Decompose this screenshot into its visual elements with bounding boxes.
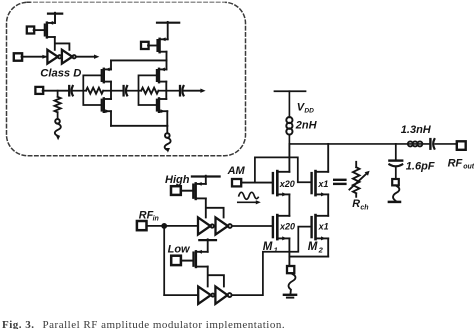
transistor P5 (High header PMOS): [192, 185, 194, 198]
transistor N1 (stage1 NMOS): [101, 100, 103, 111]
svg-text:M: M: [308, 241, 318, 253]
wire stage1 output: [111, 90, 124, 92]
svg-text:Fig. 3.Parallel RF amplitude m: Fig. 3.Parallel RF amplitude modulator i…: [2, 319, 285, 329]
svg-text:1: 1: [274, 245, 278, 254]
terminal circle (stage source): [165, 133, 170, 138]
wire AM to x20 gate: [241, 182, 273, 184]
inverter B3: [198, 287, 211, 304]
svg-text:in: in: [153, 216, 159, 223]
wire AM to x1 gate: [255, 157, 312, 182]
svg-text:RF: RF: [139, 209, 154, 221]
port square (RF input of inset): [35, 87, 43, 94]
svg-text:1.6pF: 1.6pF: [406, 160, 435, 172]
transistor M1 x20 (bottom left): [272, 217, 274, 237]
inductor L2 1.3nH (series): [408, 141, 413, 146]
capacitor C5 (output series): [429, 139, 431, 149]
resistor R1 (stage1 feedback): [86, 88, 103, 94]
svg-text:1.3nH: 1.3nH: [401, 124, 432, 136]
wire x1 drain up: [327, 144, 329, 172]
transistor P1 (PMOS header, Class D driver): [44, 25, 46, 36]
wire amp supply rail: [111, 59, 167, 61]
port square (P4 gate input): [141, 42, 149, 49]
resistor R2 (stage2 feedback): [141, 88, 158, 94]
wire M2 source down: [327, 238, 329, 256]
transistor P4 (PMOS header, amp supply): [156, 40, 158, 51]
pad square (shunt ground): [392, 179, 399, 185]
bond-wire squiggle arrow (bias): [55, 124, 61, 136]
pad square (source ground): [287, 266, 294, 273]
wire amp source rail: [111, 125, 167, 127]
power rail T-bar (Low): [199, 239, 216, 241]
transistor M1a x20 cascode (top left): [272, 173, 274, 193]
wire Low gate: [181, 260, 194, 262]
bond-wire squiggle arrow (stage source): [165, 138, 171, 150]
capacitor C3 (output): [179, 86, 181, 95]
svg-text:AM: AM: [227, 165, 246, 177]
port square (P1 gate input): [27, 27, 34, 34]
svg-text:ch: ch: [360, 204, 368, 211]
wire cascode mid left: [288, 194, 290, 215]
inductor L1 2nH (choke): [286, 117, 292, 123]
wire C1 to stage1 gate: [72, 90, 83, 92]
wire stage1 supply: [110, 60, 112, 69]
wire Class D output arrow: [76, 56, 95, 58]
wire drain rail: [289, 143, 430, 145]
svg-text:out: out: [463, 164, 474, 171]
svg-text:DD: DD: [304, 108, 314, 115]
equals sign: [334, 179, 345, 181]
port square (Class D input): [14, 53, 22, 60]
port square (RF output): [457, 141, 466, 150]
svg-text:2: 2: [318, 245, 324, 254]
wire cascode mid right: [327, 194, 329, 215]
wire inset output arrow: [183, 90, 201, 92]
svg-text:2nH: 2nH: [295, 120, 318, 132]
port square (Low input): [171, 256, 181, 265]
power rail T-bar (High): [192, 175, 220, 177]
svg-text:x20: x20: [279, 179, 295, 189]
wire B2 output to M1 gate: [232, 225, 273, 227]
svg-text:x20: x20: [279, 222, 295, 232]
wire RFin to High inverters: [147, 225, 198, 227]
inverter B2: [216, 217, 228, 234]
port square (High input): [171, 186, 181, 195]
transistor P3 (stage2 PMOS): [156, 70, 158, 81]
node stage1 gate bracket: [83, 75, 101, 105]
power rail T-bar (inset left): [48, 13, 62, 15]
wire P4 drain to supply rail: [166, 52, 168, 70]
wire x20 drain up: [288, 144, 290, 172]
wire stage2 output: [166, 90, 180, 92]
transistor M2a x1 cascode (top right): [310, 173, 312, 193]
ground (shunt): [389, 201, 400, 204]
wire P1 gate: [34, 29, 45, 31]
wire B4 output to M2 gate: [232, 227, 312, 296]
bond-wire squiggle (source ground): [289, 273, 296, 294]
wire Low drain to inverter supply: [208, 267, 224, 287]
wire inset RF input: [43, 90, 70, 92]
inverter B1: [198, 217, 210, 234]
wire High drain to inverter supply: [206, 198, 224, 217]
capacitor C2 (interstage): [122, 86, 124, 95]
AM waveform symbol: [239, 192, 258, 199]
node RFin junction dot: [162, 224, 167, 229]
wire stage1 drain node: [110, 82, 112, 99]
ground (source): [284, 294, 296, 296]
inverter B4: [215, 287, 227, 304]
node stage2 gate bracket: [139, 75, 157, 105]
svg-text:Low: Low: [168, 243, 191, 255]
wire C2 to stage2 gate: [127, 90, 139, 92]
svg-text:R: R: [352, 198, 360, 210]
wire M1 source to ground tap: [288, 238, 290, 266]
svg-text:x1: x1: [318, 222, 329, 232]
inverter A1: [47, 50, 57, 64]
wire RFin down to Low inverters: [163, 226, 165, 295]
wire P1 drain to inverter supply: [55, 37, 70, 50]
wire source rail: [289, 256, 328, 258]
dashed inset box (Class D detail): [7, 2, 246, 155]
VDD supply T-bar: [275, 90, 306, 92]
power rail T-bar (inset right): [157, 22, 179, 24]
wire Class D input: [22, 56, 47, 58]
wire C4 to pad: [395, 166, 397, 179]
capacitor C4 1.6pF (shunt): [389, 159, 402, 161]
resistor Rb (bias shunt): [57, 91, 59, 97]
terminal circle (bias): [55, 119, 60, 124]
wire stage2 drain node: [165, 82, 167, 99]
wire stage2 source: [166, 111, 168, 126]
wire High gate: [181, 190, 194, 192]
wire P4 gate: [148, 45, 158, 47]
svg-text:RF: RF: [448, 157, 463, 169]
transistor P2 (stage1 PMOS): [101, 70, 103, 81]
wire stage1 source: [110, 111, 112, 126]
transistor M2 x1 (bottom right): [310, 217, 312, 237]
transistor P6 (Low header PMOS): [192, 253, 194, 266]
port square (RF input): [137, 221, 147, 230]
wire output after cap: [435, 143, 456, 145]
svg-text:x1: x1: [317, 179, 328, 189]
svg-text:High: High: [165, 174, 190, 186]
port square (AM input): [232, 179, 241, 186]
node shunt tap: [395, 144, 397, 161]
resistor Rch (variable channel resistance): [355, 162, 357, 167]
svg-text:Class D: Class D: [40, 67, 81, 79]
capacitor C1 (series input): [68, 86, 70, 95]
transistor N2 (stage2 NMOS): [156, 100, 158, 111]
inverter A2: [62, 50, 72, 64]
bond-wire squiggle (shunt ground): [393, 185, 399, 201]
